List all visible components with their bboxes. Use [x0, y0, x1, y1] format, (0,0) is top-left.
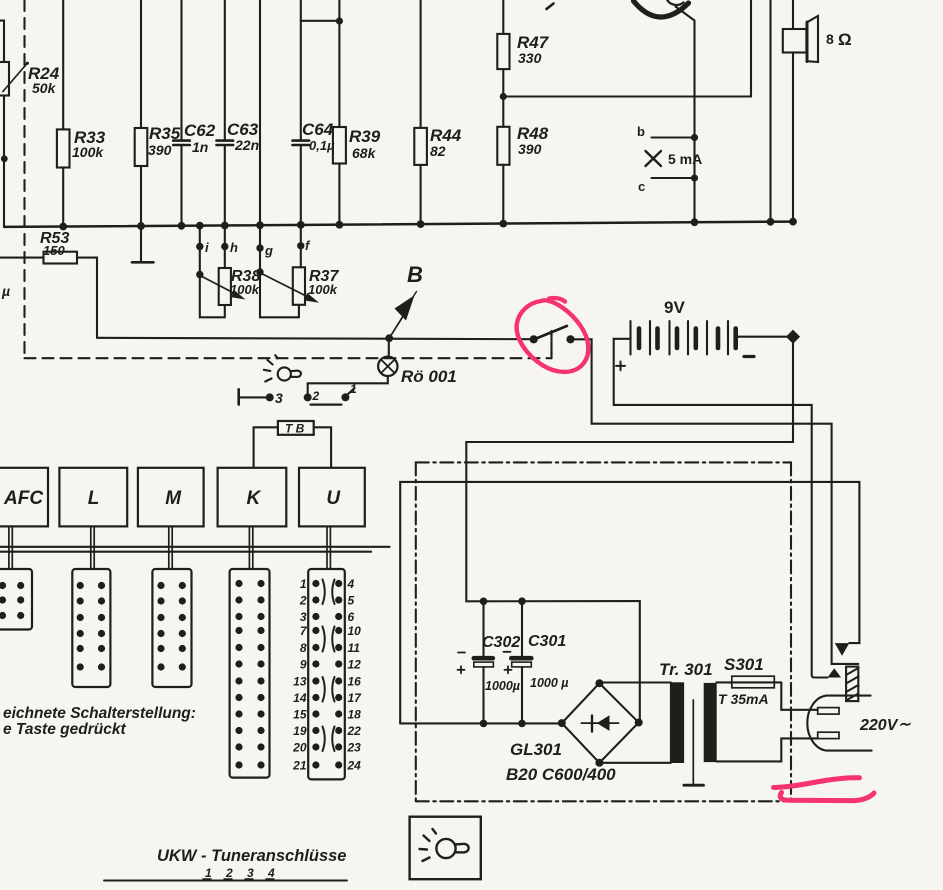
- junction dot node i: [196, 243, 203, 250]
- svg-text:22: 22: [347, 724, 362, 738]
- push-button box M: [138, 468, 204, 527]
- svg-text:1: 1: [205, 866, 212, 880]
- svg-text:5 mA: 5 mA: [668, 151, 702, 167]
- junction dot C302 top: [480, 598, 488, 606]
- junction on R24 wire: [1, 155, 8, 162]
- svg-text:M: M: [165, 488, 182, 509]
- svg-text:21: 21: [292, 759, 307, 773]
- diode arrow inside GL301: [597, 715, 610, 731]
- svg-text:i: i: [205, 240, 209, 255]
- double bus under push-buttons: [0, 547, 390, 552]
- resistor R33: [57, 0, 70, 227]
- potentiometer R38: [200, 268, 239, 317]
- svg-text:B20 C600/400: B20 C600/400: [506, 765, 616, 784]
- label 220V~: [859, 716, 911, 734]
- svg-text:18: 18: [348, 708, 362, 722]
- dashed chassis boundary (upper): [25, 0, 552, 358]
- junction dot R47/R48 node: [500, 93, 507, 100]
- contact bridge marks U strip: [323, 580, 335, 752]
- switch contact 3: [239, 389, 270, 404]
- svg-text:S301: S301: [724, 655, 764, 674]
- C302 polarity signs: [458, 653, 466, 674]
- svg-text:50k: 50k: [32, 80, 57, 96]
- svg-text:4: 4: [267, 866, 275, 880]
- value label R33 100k: [72, 128, 106, 160]
- svg-text:AFC: AFC: [3, 488, 43, 509]
- svg-text:22n: 22n: [234, 137, 259, 153]
- switch contact 1: [341, 393, 349, 401]
- svg-text:82: 82: [430, 143, 446, 159]
- svg-text:1000µ: 1000µ: [485, 679, 520, 693]
- wire plain vertical branch (node g feed): [259, 0, 261, 226]
- pin numbers U strip right: [347, 577, 363, 773]
- svg-text:6: 6: [348, 610, 355, 624]
- capacitor C62: [173, 0, 190, 226]
- meter branch vertical with contacts b/c: [652, 138, 695, 223]
- svg-text:13: 13: [293, 675, 307, 689]
- svg-text:0,1µ: 0,1µ: [309, 138, 335, 153]
- decorative bulb glyph near contacts: [264, 355, 301, 381]
- contact strip AFC: [0, 569, 32, 630]
- svg-text:9V: 9V: [664, 298, 685, 317]
- svg-text:C301: C301: [528, 633, 566, 650]
- transformer screen to chassis ground: [684, 700, 704, 785]
- node B arrow: [389, 292, 416, 339]
- wire switch to mains connector (right leg): [571, 339, 859, 664]
- switch lever: [533, 326, 567, 340]
- pink annotation circle around switch: [517, 298, 589, 372]
- junction dot C302 bottom: [480, 720, 488, 728]
- value label R35 390: [148, 124, 181, 158]
- wire fuse to plug upper pin: [781, 682, 817, 709]
- contact strip M: [152, 569, 191, 687]
- resistor R47: [497, 0, 509, 127]
- tuning indicator tube (bottom arc, cut by image top): [634, 1, 689, 18]
- battery 9V: [614, 339, 828, 678]
- resistor R48: [497, 127, 509, 224]
- arrowhead R37 wiper: [305, 293, 319, 303]
- pink annotation underline 2: [780, 793, 874, 801]
- svg-text:C64: C64: [302, 120, 334, 139]
- svg-text:17: 17: [348, 691, 363, 705]
- svg-text:1: 1: [350, 382, 357, 396]
- wire secondary bottom to plug lower pin: [716, 738, 817, 761]
- node f stub: [300, 225, 302, 267]
- svg-text:16: 16: [348, 675, 362, 689]
- value label R47 330: [517, 33, 550, 66]
- svg-text:10: 10: [348, 624, 362, 638]
- junction dot C301 top: [518, 597, 526, 605]
- svg-text:Ω: Ω: [838, 30, 852, 49]
- wire vertical x770: [769, 0, 771, 222]
- battery plus sign: [616, 362, 625, 371]
- svg-text:T B: T B: [285, 422, 305, 436]
- svg-text:UKW - Tuneranschlüsse: UKW - Tuneranschlüsse: [157, 847, 346, 865]
- junction dot node B: [385, 334, 393, 342]
- svg-text:12: 12: [348, 658, 362, 672]
- svg-text:eichnete Schalterstellung:: eichnete Schalterstellung:: [3, 705, 196, 722]
- svg-text:2: 2: [299, 594, 307, 608]
- svg-text:8: 8: [826, 31, 834, 47]
- junction dot battery/speaker line: [786, 330, 800, 344]
- svg-text:15: 15: [293, 708, 307, 722]
- svg-text:g: g: [264, 243, 273, 258]
- pin numbers U strip left: [292, 577, 308, 773]
- coupling TB box: [254, 421, 332, 468]
- svg-text:100k: 100k: [308, 282, 338, 297]
- resistor R39: [333, 0, 346, 225]
- meter 5mA cross symbol: [646, 151, 662, 166]
- dashed mechanical link to switch: [550, 332, 552, 358]
- svg-text:3: 3: [247, 866, 254, 880]
- underline below contact 2: [311, 404, 342, 406]
- svg-text:24: 24: [347, 759, 362, 773]
- wire outer loop to bridge left / mains arrow: [400, 482, 859, 724]
- junction dot C301 bottom: [518, 720, 526, 728]
- on/off switch contacts: [530, 335, 538, 343]
- lamp Ro 001: [308, 338, 398, 397]
- mains plug 220V: [807, 696, 871, 751]
- speaker 8 ohm: [783, 0, 818, 222]
- svg-text:220V: 220V: [859, 717, 899, 734]
- svg-text:23: 23: [347, 741, 362, 755]
- resistor R24: [0, 21, 29, 227]
- battery minus sign: [744, 355, 754, 358]
- resistor R53: [0, 252, 97, 338]
- switch contact 2: [304, 393, 312, 401]
- svg-text:R39: R39: [349, 127, 381, 146]
- connector arrow down: [835, 643, 850, 656]
- junction dot R37 wiper: [256, 268, 263, 275]
- junction dot R38 wiper: [196, 271, 203, 278]
- svg-text:K: K: [246, 488, 261, 509]
- svg-text:100k: 100k: [72, 144, 104, 160]
- wire tube to meter branch (diagonal): [676, 7, 695, 138]
- transformer Tr.301 secondary winding: [704, 683, 717, 762]
- svg-text:5: 5: [348, 594, 355, 608]
- wire R47 node to vertical x751: [503, 95, 751, 97]
- push-button box L: [59, 468, 127, 527]
- ground symbol below bus: [132, 226, 154, 262]
- svg-text:e Taste gedrückt: e Taste gedrückt: [3, 721, 126, 738]
- svg-text:100k: 100k: [230, 282, 260, 297]
- svg-text:20: 20: [292, 741, 307, 755]
- junction dot R39/C64: [336, 17, 343, 24]
- junction dots GL301 corners: [558, 679, 643, 767]
- push-button box K: [218, 468, 287, 527]
- svg-text:9: 9: [300, 658, 307, 672]
- svg-text:µ: µ: [1, 283, 10, 299]
- switch stems (double lines): [9, 526, 331, 569]
- svg-text:b: b: [637, 124, 645, 139]
- capacitor C301 1000u: [511, 601, 531, 723]
- svg-text:1: 1: [300, 577, 307, 591]
- C301 polarity signs: [504, 652, 512, 674]
- wire vertical x751 from top: [750, 0, 752, 97]
- svg-text:T 35mA: T 35mA: [718, 691, 769, 707]
- wire main horizontal bus: [4, 222, 793, 227]
- svg-text:U: U: [326, 488, 341, 509]
- fuse S301: [716, 676, 781, 688]
- svg-text:c: c: [638, 179, 645, 194]
- junction dots on main bus: [59, 218, 797, 231]
- value label R39 68k: [349, 127, 381, 161]
- value label C63 22n: [227, 120, 259, 153]
- caption underline: [104, 880, 347, 882]
- svg-text:Tr. 301: Tr. 301: [659, 660, 713, 679]
- wire GL301 top AC to transformer: [599, 681, 671, 684]
- svg-text:150: 150: [43, 243, 65, 258]
- contact strip K: [230, 569, 270, 778]
- insulation barrier (hatched): [846, 667, 858, 702]
- bridge rectifier GL301: [562, 683, 639, 763]
- caption pins 1 2 3 4: [205, 866, 275, 880]
- svg-text:3: 3: [275, 390, 283, 406]
- wire battery minus down to rectifier feed: [466, 337, 793, 723]
- pink annotation underline 1: [774, 778, 860, 788]
- svg-text:C62: C62: [184, 121, 216, 140]
- node g stub: [259, 225, 261, 272]
- value label R48 390: [517, 124, 549, 157]
- value label R38 100k: [230, 268, 260, 297]
- wire R53 to node B and switch: [97, 338, 534, 339]
- svg-text:19: 19: [293, 724, 307, 738]
- potentiometer R37: [260, 267, 312, 317]
- junction dot node g: [256, 244, 263, 251]
- junction dot contact c: [691, 174, 698, 181]
- junction dot node h: [221, 243, 228, 250]
- svg-text:1000 µ: 1000 µ: [530, 676, 568, 690]
- svg-text:14: 14: [293, 691, 307, 705]
- svg-text:8: 8: [300, 641, 307, 655]
- svg-text:1n: 1n: [192, 139, 208, 155]
- resistor R35: [135, 0, 148, 226]
- label 8 ohm: [826, 30, 852, 49]
- push-button box U: [299, 468, 365, 527]
- svg-text:11: 11: [348, 641, 361, 655]
- capacitor C63: [217, 0, 234, 226]
- svg-text:Rö 001: Rö 001: [401, 367, 457, 386]
- svg-text:GL301: GL301: [510, 740, 562, 759]
- stray mark above R47: [547, 4, 554, 10]
- value label C62 1n: [184, 121, 216, 155]
- svg-text:330: 330: [518, 50, 542, 66]
- value label R44 82: [430, 126, 462, 159]
- contact strip L: [72, 569, 110, 687]
- svg-text:4: 4: [347, 577, 355, 591]
- transformer Tr.301 primary winding: [670, 682, 684, 763]
- svg-text:390: 390: [518, 141, 542, 157]
- resistor R44: [414, 0, 427, 225]
- push-button box AFC: [0, 468, 48, 527]
- svg-text:B: B: [407, 262, 423, 287]
- value label C64 0,1u: [302, 120, 335, 153]
- wire GL301 bottom AC to transformer: [599, 762, 671, 764]
- svg-text:2: 2: [225, 866, 233, 880]
- value label R37 100k: [308, 268, 339, 297]
- capacitor C302 1000u: [474, 601, 494, 723]
- svg-text:L: L: [88, 488, 100, 509]
- svg-text:h: h: [230, 240, 238, 255]
- chassis boundary power supply (dash-dot): [416, 462, 791, 801]
- svg-text:390: 390: [148, 142, 172, 158]
- node i stub: [199, 226, 201, 275]
- connector arrow up: [828, 668, 842, 677]
- svg-text:68k: 68k: [352, 145, 377, 161]
- value label R24 50k: [28, 64, 60, 96]
- wire battery minus to junction: [736, 336, 793, 338]
- contact strip U: [308, 569, 345, 779]
- value label R53 150: [40, 230, 69, 258]
- svg-text:3: 3: [300, 610, 307, 624]
- capacitor C64: [293, 0, 340, 225]
- dial lamp box: [410, 817, 481, 880]
- junction dot node f: [297, 242, 304, 249]
- node h stub: [224, 226, 226, 269]
- svg-text:C302: C302: [482, 634, 520, 651]
- svg-text:∼: ∼: [898, 716, 911, 733]
- arrowhead R38 wiper: [232, 290, 246, 300]
- svg-text:2: 2: [312, 389, 320, 403]
- junction dot contact b: [691, 134, 698, 141]
